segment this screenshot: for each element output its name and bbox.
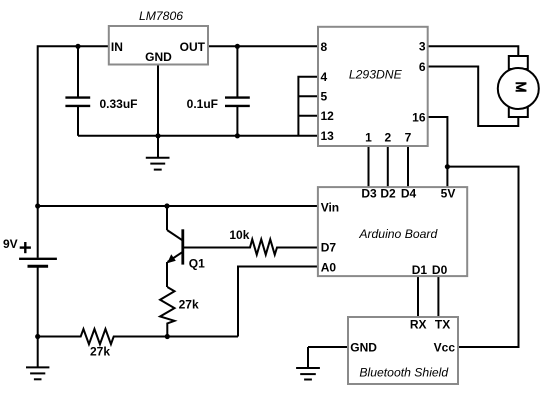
node battery-/bottom rail [35, 334, 40, 339]
transistor Q1 [167, 206, 183, 287]
svg-text:D0: D0 [432, 263, 448, 277]
wire L293 pin 6 to motor bottom [428, 67, 519, 127]
svg-text:Vcc: Vcc [434, 340, 456, 354]
IC U1 LM7806 box [109, 26, 208, 65]
svg-text:A0: A0 [321, 260, 337, 274]
svg-text:0.1uF: 0.1uF [187, 97, 218, 111]
svg-text:7: 7 [405, 131, 412, 145]
wire battery - down to bottom rail [37, 267, 39, 336]
node Vin/Q1 collector [164, 203, 169, 208]
svg-text:GND: GND [145, 50, 172, 64]
node GND/C1 bottom [155, 133, 160, 138]
svg-text:3: 3 [419, 40, 426, 54]
svg-text:5: 5 [321, 90, 328, 104]
node battery+/Vin [35, 203, 40, 208]
svg-text:Bluetooth Shield: Bluetooth Shield [359, 366, 449, 380]
wire left rail from IN wire down to battery + [38, 46, 109, 257]
svg-text:12: 12 [321, 109, 335, 123]
wire L293 pin 1 to D3 [368, 146, 370, 187]
svg-text:5V: 5V [441, 186, 456, 200]
resistor R1 27k vertical [160, 287, 174, 337]
wire OUT to L293 pin 8 [208, 45, 318, 47]
node C2 bottom [235, 133, 240, 138]
svg-text:2: 2 [384, 131, 391, 145]
node OUT/C2 [235, 44, 240, 49]
ground at Bluetooth shield [296, 347, 320, 380]
svg-text:D1: D1 [412, 263, 428, 277]
svg-text:D4: D4 [401, 186, 417, 200]
wire L293 pin 3 to motor top [428, 46, 519, 56]
motor M1 [498, 56, 539, 117]
node 5V/Vcc branch [445, 164, 450, 169]
svg-text:27k: 27k [90, 345, 110, 359]
wire L293 pin 5 stub [298, 95, 318, 97]
svg-text:27k: 27k [179, 297, 199, 311]
capacitor C2 0.1uF [225, 46, 250, 136]
wire bus tying L293 pins 4,5,12,13 [298, 77, 318, 136]
wire D0 to TX [437, 276, 439, 317]
svg-text:0.33uF: 0.33uF [100, 97, 138, 111]
resistor R2 10k [184, 239, 318, 254]
svg-text:OUT: OUT [180, 40, 206, 54]
svg-text:Q1: Q1 [189, 257, 205, 271]
svg-text:D2: D2 [380, 186, 396, 200]
ground under battery [26, 337, 49, 380]
capacitor C1 0.33uF [65, 46, 90, 136]
svg-text:Vin: Vin [321, 200, 339, 214]
svg-text:1: 1 [365, 131, 372, 145]
label M (motor) [516, 83, 527, 91]
board U3 Arduino box [318, 187, 467, 276]
svg-text:4: 4 [321, 70, 328, 84]
node IN/C1 [75, 44, 80, 49]
svg-text:LM7806: LM7806 [139, 9, 183, 23]
svg-text:GND: GND [350, 340, 377, 354]
wire LM7806 GND pin [157, 65, 159, 136]
svg-text:IN: IN [111, 40, 123, 54]
svg-text:D3: D3 [361, 186, 377, 200]
wire L293 pin 12 stub [298, 115, 318, 117]
wire A0 to bottom rail [238, 267, 318, 337]
svg-text:TX: TX [435, 318, 450, 332]
IC U2 L293DNE box [318, 27, 428, 146]
symbol + (battery) [20, 242, 31, 253]
svg-text:L293DNE: L293DNE [349, 68, 403, 82]
svg-text:9V: 9V [3, 237, 18, 251]
svg-text:8: 8 [321, 40, 328, 54]
svg-text:10k: 10k [229, 228, 249, 242]
svg-text:RX: RX [410, 318, 427, 332]
wire capacitor bottom rail to L293 pin 13 [78, 135, 318, 137]
wire L293 pin 2 to D2 [387, 146, 389, 187]
module U4 Bluetooth Shield box [348, 317, 458, 384]
svg-text:6: 6 [419, 60, 426, 74]
svg-text:16: 16 [412, 110, 426, 124]
node R1/bottom rail [165, 334, 170, 339]
svg-text:D7: D7 [321, 240, 337, 254]
svg-text:Arduino Board: Arduino Board [358, 227, 438, 241]
battery B1 9V [19, 259, 57, 266]
wire 5V branch to right rail down to Vcc [447, 167, 518, 347]
wire Vin rail from battery to Arduino Vin [38, 205, 318, 207]
ground under LM7806 [146, 136, 170, 170]
wire L293 pin 16 down to Arduino 5V [428, 117, 448, 187]
svg-text:13: 13 [321, 129, 335, 143]
wire D1 to RX [417, 276, 419, 317]
wire L293 pin 7 to D4 [407, 146, 409, 187]
wire Bluetooth GND [308, 346, 348, 348]
resistor R3 27k horizontal [38, 329, 238, 344]
